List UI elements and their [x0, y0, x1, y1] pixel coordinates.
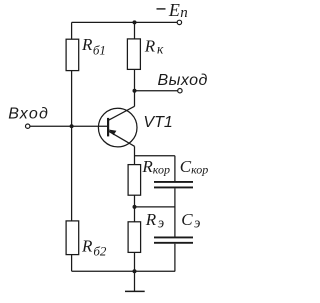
wire left branch top: [71, 22, 73, 39]
resistor Rкор: [128, 165, 141, 196]
wire left branch bottom: [71, 255, 73, 272]
wire capacitor branch bottom: [174, 244, 176, 272]
label -Eп minus sign: [157, 8, 166, 10]
svg-text:Вход: Вход: [8, 105, 48, 122]
resistor Rк: [127, 39, 140, 70]
wire input to base: [30, 125, 108, 127]
node emitter junction: [133, 205, 137, 209]
node input junction: [70, 124, 74, 128]
svg-text:Rкор: Rкор: [141, 157, 170, 177]
capacitor Cкор: [154, 182, 193, 188]
svg-text:Cэ: Cэ: [181, 210, 200, 231]
wire emitter branch top: [134, 146, 136, 164]
svg-text:VT1: VT1: [143, 114, 172, 131]
wire emitter branch bottom: [134, 252, 136, 271]
wire capacitor branch middle: [174, 188, 176, 236]
capacitor Cэ: [154, 237, 193, 242]
svg-text:Cкор: Cкор: [180, 157, 209, 177]
terminal Выход: [178, 89, 182, 93]
svg-text:Выход: Выход: [158, 72, 208, 89]
wire bottom ground rail: [72, 270, 176, 272]
svg-text:Rк: Rк: [144, 36, 164, 56]
svg-text:Rэ: Rэ: [145, 210, 164, 231]
wire top supply rail: [72, 21, 177, 23]
wire collector branch top: [134, 22, 136, 39]
node supply junction: [133, 20, 137, 24]
wire tap to Cэ: [135, 206, 175, 208]
node output junction: [133, 89, 137, 93]
wire collector branch bottom: [134, 69, 136, 106]
ground: [125, 271, 145, 291]
svg-text:Rб1: Rб1: [81, 35, 106, 57]
resistor Rэ: [128, 222, 141, 253]
resistor Rб2: [66, 221, 79, 255]
terminal Вход: [26, 124, 30, 128]
svg-text:Eп: Eп: [168, 0, 188, 21]
wire emitter branch middle: [134, 195, 136, 222]
wire tap to Cкор: [135, 155, 175, 157]
terminal -Eп: [177, 20, 181, 24]
wire capacitor branch top: [174, 156, 176, 181]
resistor Rб1: [66, 39, 79, 70]
wire left branch middle: [71, 71, 73, 221]
transistor VT1: [98, 106, 137, 147]
svg-text:Rб2: Rб2: [81, 236, 107, 258]
wire output tap: [135, 90, 178, 92]
node ground junction: [133, 269, 137, 273]
